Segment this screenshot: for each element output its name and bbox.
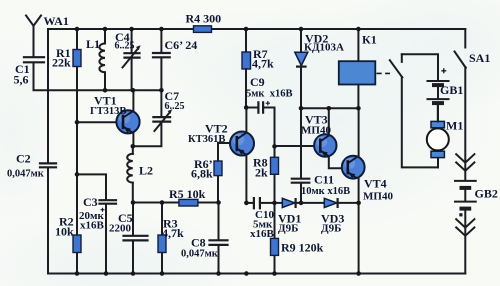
svg-text:М1: М1 [446, 119, 463, 133]
svg-text:C3: C3 [83, 195, 98, 209]
svg-text:0,047мк: 0,047мк [181, 249, 219, 260]
resistor R4 [194, 26, 212, 33]
svg-text:МП40: МП40 [301, 125, 331, 137]
wire collector rail [301, 107, 358, 109]
capacitor C3 [100, 200, 117, 212]
wire left bus lower [47, 168, 49, 273]
wire right bus top [464, 29, 466, 48]
svg-text:22k: 22k [52, 56, 71, 70]
svg-text:0,047мк: 0,047мк [7, 169, 45, 180]
wire C1 down and right [34, 63, 162, 90]
svg-text:ГТ313В: ГТ313В [90, 106, 126, 117]
battery GB2 [455, 181, 476, 217]
svg-text:GB1: GB1 [440, 83, 463, 97]
switch SA1 [455, 52, 466, 68]
svg-text:Д9Б: Д9Б [278, 223, 298, 235]
relay K1 [339, 29, 390, 108]
wire VT3 base [275, 145, 321, 147]
svg-text:КТ361В: КТ361В [188, 134, 225, 145]
diode VD3 [324, 198, 358, 208]
resistor R2 [73, 235, 81, 253]
resistor R9 [271, 203, 279, 274]
wire right bus bottom [464, 210, 466, 274]
svg-text:R5 10k: R5 10k [169, 187, 206, 201]
transistor VT1 [116, 90, 139, 146]
svg-text:C9: C9 [250, 75, 265, 89]
connector arrows lower [456, 219, 474, 236]
battery GB1 [402, 54, 449, 121]
capacitor C10 [246, 197, 274, 209]
wire R1 column [76, 29, 78, 274]
capacitor C5 [124, 203, 148, 274]
svg-text:6..25: 6..25 [115, 41, 135, 52]
resistor R5 [179, 199, 198, 206]
wire R5 row [133, 202, 219, 204]
svg-text:К1: К1 [362, 33, 377, 47]
resistor R8 [271, 146, 279, 203]
variable capacitor C4 [123, 29, 141, 90]
wire C3 branch [77, 174, 106, 273]
svg-text:6,8k: 6,8k [191, 167, 213, 181]
svg-text:10k: 10k [55, 225, 74, 239]
svg-text:R4 300: R4 300 [186, 12, 222, 26]
variable capacitor C7 [133, 90, 172, 146]
inductor L1 [99, 29, 105, 90]
svg-text:2k: 2k [255, 166, 268, 180]
motor M1 [427, 105, 449, 167]
svg-text:C6’ 24: C6’ 24 [165, 38, 198, 52]
transistor VT2 [230, 108, 254, 203]
svg-text:10мк х16В: 10мк х16В [301, 186, 350, 197]
svg-text:КД103А: КД103А [304, 42, 344, 54]
svg-text:C11: C11 [314, 173, 334, 187]
svg-text:WA1: WA1 [44, 14, 69, 28]
svg-text:R9 120k: R9 120k [281, 241, 324, 255]
svg-text:GB2: GB2 [475, 187, 498, 201]
svg-text:х16В: х16В [80, 220, 105, 232]
capacitor C8 [210, 203, 228, 274]
wire right bus mid [464, 67, 466, 180]
svg-text:5мк х16В: 5мк х16В [246, 89, 292, 100]
svg-text:4,7k: 4,7k [252, 57, 274, 71]
capacitor C9 [246, 101, 275, 146]
diode VD1 [275, 198, 324, 208]
relay contact K1.1 [390, 54, 438, 167]
transistor VT4 [342, 108, 365, 203]
resistor R1 [73, 50, 81, 67]
wire VT4 emitter to bus [358, 203, 360, 274]
capacitor C2 [40, 163, 56, 167]
inductor L2 [127, 146, 133, 202]
connector arrows upper (to GB2) [456, 154, 474, 171]
svg-text:VT4: VT4 [364, 177, 387, 191]
svg-text:2200: 2200 [109, 223, 132, 235]
svg-text:C2: C2 [16, 152, 31, 166]
capacitor C1 [24, 57, 44, 62]
wire VT1 base [77, 121, 123, 123]
capacitor C11 [292, 108, 310, 203]
svg-text:МП40: МП40 [363, 191, 393, 203]
resistor R3 [158, 203, 166, 274]
diode VD2 [295, 29, 308, 108]
svg-text:х16В: х16В [250, 228, 275, 240]
wire top bus [48, 28, 465, 30]
resistor R6' [214, 143, 237, 203]
transistor VT3 [314, 108, 348, 168]
svg-text:6..25: 6..25 [165, 101, 185, 112]
svg-text:4,7k: 4,7k [162, 226, 184, 240]
antenna WA1 [26, 16, 41, 56]
wire bottom bus [48, 273, 465, 275]
capacitor C6' [153, 29, 170, 90]
svg-text:5,6: 5,6 [14, 73, 29, 87]
wire left bus upper [47, 29, 49, 162]
resistor R7 [242, 29, 251, 108]
svg-text:SA1: SA1 [469, 51, 490, 65]
svg-text:C8: C8 [191, 236, 206, 250]
svg-text:L1: L1 [86, 37, 100, 51]
svg-text:L2: L2 [139, 164, 153, 178]
svg-text:Д9Б: Д9Б [321, 223, 341, 235]
